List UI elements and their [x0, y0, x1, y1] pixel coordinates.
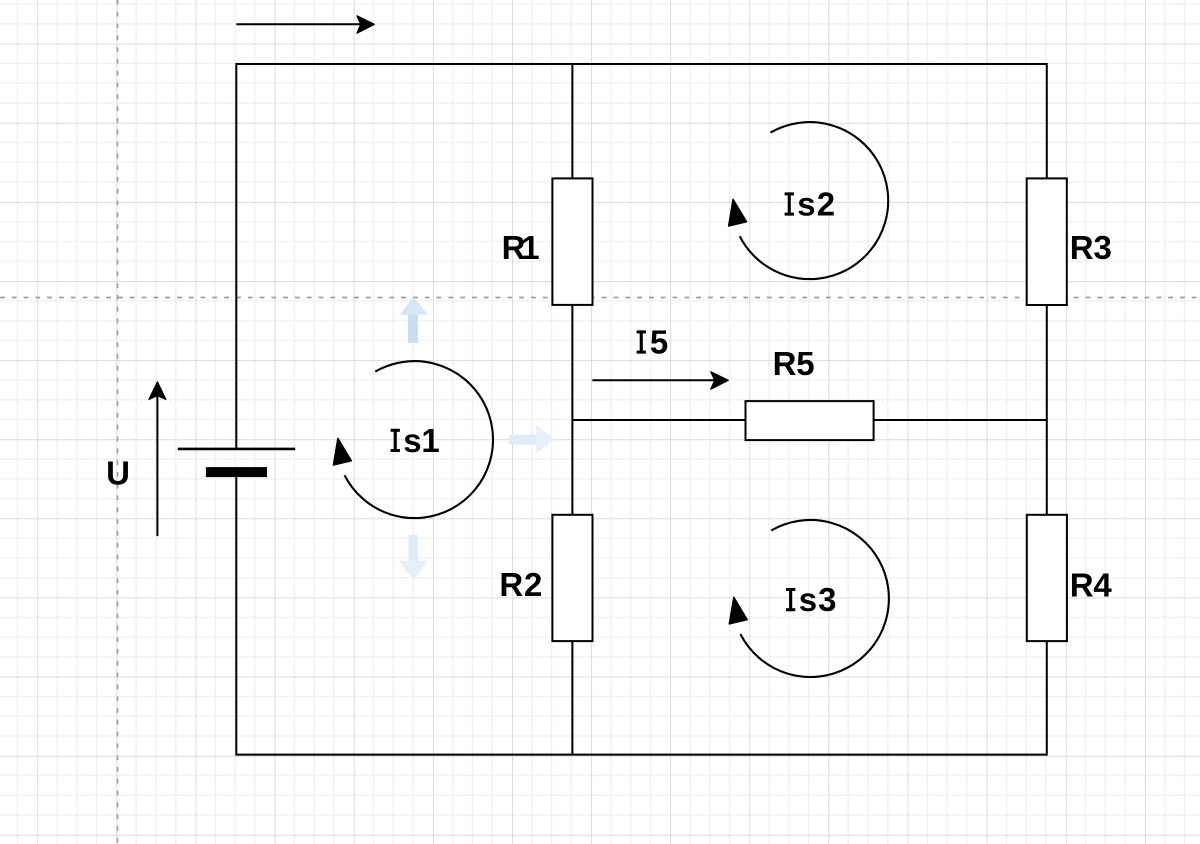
resistor R2: [552, 515, 592, 641]
wire: middle vertical branch: [571, 64, 573, 755]
svg-text:R2: R2: [499, 566, 542, 603]
label Is3: [786, 581, 837, 618]
svg-text:s3: s3: [799, 581, 837, 618]
mesh current loop Is2: [729, 122, 889, 279]
svg-text:R5: R5: [773, 345, 815, 382]
svg-text:U: U: [106, 455, 130, 492]
current arrow (top): [236, 16, 374, 33]
wire: left side lower segment: [235, 477, 237, 755]
direction hint arrow down: [399, 535, 428, 581]
svg-text:R4: R4: [1070, 566, 1113, 603]
battery source: long positive plate: [178, 448, 295, 451]
wire: left side upper segment: [235, 63, 237, 449]
wire: bottom side: [236, 754, 1047, 756]
battery source: short negative plate: [206, 467, 267, 477]
voltage arrow U: [149, 382, 166, 536]
resistor R4: [1027, 515, 1067, 641]
direction hint arrow right: [509, 425, 554, 453]
resistor R1: [552, 178, 592, 305]
mesh current loop Is1: [333, 361, 493, 518]
label Is1: [391, 422, 440, 459]
direction hint arrow up: [400, 297, 428, 343]
wire: middle horizontal branch: [572, 419, 1046, 421]
svg-text:R3: R3: [1070, 229, 1112, 266]
resistor R5: [746, 401, 874, 440]
svg-text:s2: s2: [797, 186, 835, 223]
svg-text:s1: s1: [403, 422, 439, 459]
svg-text:5: 5: [650, 324, 668, 361]
wire: top side: [236, 63, 1047, 65]
mesh current loop Is3: [729, 520, 889, 677]
label Is2: [785, 186, 836, 223]
svg-text:R1: R1: [502, 229, 540, 266]
label I5: [637, 324, 669, 361]
current arrow I5: [592, 372, 728, 389]
wire: right side: [1046, 63, 1048, 756]
resistor R3: [1027, 178, 1067, 305]
